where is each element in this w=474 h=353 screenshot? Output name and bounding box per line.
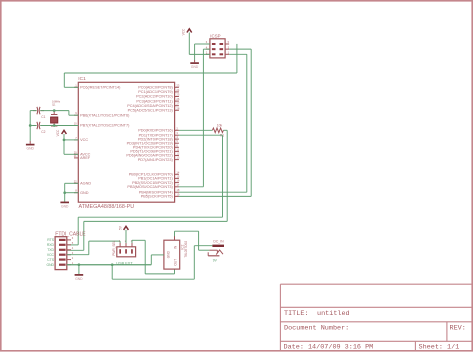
svg-text:27: 27: [176, 102, 179, 106]
svg-text:PWR_SEL: PWR_SEL: [112, 240, 116, 255]
DC jack center pin: [209, 250, 223, 255]
svg-text:TITLE:: TITLE:: [284, 310, 308, 318]
junction FTDI ground: [78, 263, 81, 266]
svg-text:10k: 10k: [217, 123, 223, 127]
svg-text:OUT: OUT: [174, 259, 178, 266]
IC1 left pins and labels: [74, 83, 130, 195]
svg-text:GND: GND: [191, 65, 199, 69]
junction crystal bottom: [53, 124, 56, 127]
svg-text:17: 17: [176, 183, 179, 187]
wire VCC to pin7: [64, 139, 78, 141]
svg-text:GND: GND: [27, 147, 35, 151]
USB EXT label: [116, 261, 133, 265]
wire RX net: [67, 130, 227, 250]
svg-text:PC2(ADC2/PCINT10): PC2(ADC2/PCINT10): [136, 95, 173, 99]
svg-text:AREF: AREF: [80, 156, 91, 160]
DC_IN label: [213, 239, 224, 243]
svg-text:PC1(ADC1/PCINT9): PC1(ADC1/PCINT9): [138, 90, 173, 94]
svg-text:GND: GND: [61, 204, 69, 208]
svg-text:RXD: RXD: [47, 243, 55, 247]
junction ground low branch: [111, 263, 114, 266]
svg-text:GND: GND: [46, 263, 54, 267]
wire GND pin net: [65, 192, 79, 194]
svg-text:GND: GND: [166, 250, 170, 258]
ground symbol at IC: [60, 193, 69, 209]
5V supply arrow: [118, 225, 128, 243]
crystal Q1: [51, 100, 61, 126]
IC2 pin labels: [166, 245, 177, 266]
svg-text:C2: C2: [41, 130, 45, 134]
wire MOSI net: [179, 49, 210, 187]
svg-text:PC3(ADC3/PCINT11): PC3(ADC3/PCINT11): [136, 99, 173, 103]
IC2 name label: [180, 244, 184, 249]
FTDI name label: [55, 231, 86, 237]
ICSP name label: [210, 33, 220, 38]
svg-text:TXD: TXD: [47, 248, 54, 252]
ICSP pin pads: [212, 43, 223, 55]
svg-text:16: 16: [176, 179, 179, 183]
PWR_SEL pins: [119, 240, 133, 254]
resistor R1: [212, 123, 224, 137]
svg-text:GND: GND: [80, 191, 89, 195]
IC1 name label: [78, 76, 86, 82]
sheet text: [419, 343, 460, 351]
svg-text:ATMEGA48/88/168-PU: ATMEGA48/88/168-PU: [79, 204, 135, 210]
svg-text:untitled: untitled: [317, 310, 350, 318]
VCC supply arrow at IC: [56, 129, 66, 140]
ICSP connector box: [210, 39, 225, 58]
svg-text:AGND: AGND: [80, 182, 91, 186]
svg-text:VCC: VCC: [80, 138, 88, 142]
svg-text:15: 15: [176, 174, 179, 178]
ground symbol at caps: [26, 141, 35, 151]
svg-text:24: 24: [176, 88, 179, 92]
DC jack barrel: [212, 245, 224, 247]
svg-text:11: 11: [176, 147, 179, 151]
IC2 value label: [184, 241, 188, 258]
junction IC ground: [63, 191, 66, 194]
ICSP pin stubs: [206, 40, 230, 54]
svg-text:REV:: REV:: [450, 325, 466, 333]
PWR_SEL name label: [112, 240, 116, 255]
wire AGND net: [65, 183, 79, 192]
svg-text:PD7(AIN1/PCINT23): PD7(AIN1/PCINT23): [138, 158, 174, 162]
wire EXT power net: [132, 240, 175, 274]
svg-text:PC5(ADC5/SCL/PCINT13): PC5(ADC5/SCL/PCINT13): [128, 109, 174, 113]
svg-text:VCC: VCC: [56, 129, 60, 136]
capacitor C1: [33, 107, 46, 119]
svg-text:Date: 14/07/09 3:16 PM: Date: 14/07/09 3:16 PM: [284, 343, 374, 351]
svg-text:23: 23: [176, 83, 179, 87]
svg-text:78L05TO92: 78L05TO92: [184, 241, 188, 258]
svg-text:USB EXT: USB EXT: [116, 261, 133, 265]
svg-text:28: 28: [176, 106, 179, 110]
svg-text:10: 10: [74, 122, 77, 126]
svg-text:PB7(XTAL2/TOSC2/PCINT7): PB7(XTAL2/TOSC2/PCINT7): [80, 124, 130, 128]
svg-text:Sheet: 1/1: Sheet: 1/1: [419, 343, 460, 351]
svg-text:IC1: IC1: [78, 76, 86, 82]
FTDI_CABLE connector box: [55, 237, 67, 270]
wire regulator ground: [151, 255, 164, 265]
wire ground low branch: [112, 246, 212, 280]
svg-text:14: 14: [176, 170, 179, 174]
svg-text:PB3(MOSI/OC2A/PCINT3): PB3(MOSI/OC2A/PCINT3): [127, 185, 173, 189]
wire ICSP VCC: [189, 53, 210, 55]
wire VCC to AVCC: [64, 140, 78, 154]
svg-text:PB5(SCK/PCINT5): PB5(SCK/PCINT5): [141, 195, 174, 199]
IC1 value label: [79, 204, 135, 210]
wire FTDI ground net: [67, 264, 152, 266]
DC jack sleeve contact: [208, 252, 219, 256]
VCC supply arrow at ICSP: [182, 28, 192, 54]
document number text: [284, 325, 349, 333]
svg-text:18: 18: [176, 188, 179, 192]
junction VCC: [63, 139, 66, 142]
svg-text:22: 22: [74, 179, 77, 183]
wire XTAL1 net: [30, 111, 78, 116]
svg-text:PC6(/RESET/PCINT14): PC6(/RESET/PCINT14): [80, 86, 121, 90]
ground symbol at FTDI: [75, 265, 84, 281]
wire XTAL2 net: [30, 125, 78, 127]
wire SCK net: [179, 49, 251, 196]
svg-text:26: 26: [176, 97, 179, 101]
junction crystal top: [53, 109, 56, 112]
svg-text:12: 12: [176, 152, 179, 156]
capacitor C2: [33, 122, 46, 134]
title block grid: [280, 284, 472, 351]
svg-text:ICSP: ICSP: [210, 33, 220, 38]
wire ICSP ground: [195, 44, 210, 60]
svg-text:VCC: VCC: [182, 28, 186, 35]
date text: [284, 343, 374, 351]
wire MISO net: [179, 54, 247, 192]
wire cap ground leg: [29, 111, 31, 141]
svg-text:20: 20: [74, 150, 77, 154]
ground symbol at ICSP: [190, 60, 199, 69]
svg-text:FTDI_CABLE: FTDI_CABLE: [55, 231, 86, 237]
wire FTDI VCC to power header: [67, 241, 120, 255]
svg-text:C1: C1: [41, 115, 45, 119]
wire RESET net: [64, 44, 237, 87]
svg-text:Document Number:: Document Number:: [284, 325, 349, 333]
svg-text:Q1: Q1: [52, 103, 56, 107]
svg-text:19: 19: [176, 192, 179, 196]
svg-text:PB6(XTAL1/TOSC1/PCINT6): PB6(XTAL1/TOSC1/PCINT6): [80, 113, 130, 117]
svg-text:25: 25: [176, 93, 179, 97]
svg-text:DC_IN: DC_IN: [213, 239, 224, 243]
rev text: [450, 325, 466, 333]
wire TX net: [67, 135, 223, 245]
wire regulator input net: [175, 231, 210, 250]
svg-text:GND: GND: [75, 277, 83, 281]
svg-text:RTS: RTS: [47, 238, 54, 242]
title text: [284, 310, 350, 318]
IC1 box: [78, 82, 174, 202]
svg-text:PC4(ADC4/SDA/PCINT12): PC4(ADC4/SDA/PCINT12): [127, 104, 173, 108]
svg-text:PD0(RXD/PCINT16): PD0(RXD/PCINT16): [138, 129, 173, 133]
svg-text:CTS: CTS: [47, 258, 55, 262]
svg-text:PC0(ADC0/PCINT8): PC0(ADC0/PCINT8): [138, 86, 173, 90]
9V label: [213, 258, 218, 262]
voltage regulator IC2 box: [164, 240, 180, 269]
junction C2 left: [29, 124, 32, 127]
PWR_SEL header box: [117, 247, 136, 257]
FTDI pads pins labels: [46, 236, 73, 267]
svg-text:VCC: VCC: [47, 253, 55, 257]
IC1 right pins and labels: [126, 83, 180, 198]
svg-text:13: 13: [176, 156, 179, 160]
